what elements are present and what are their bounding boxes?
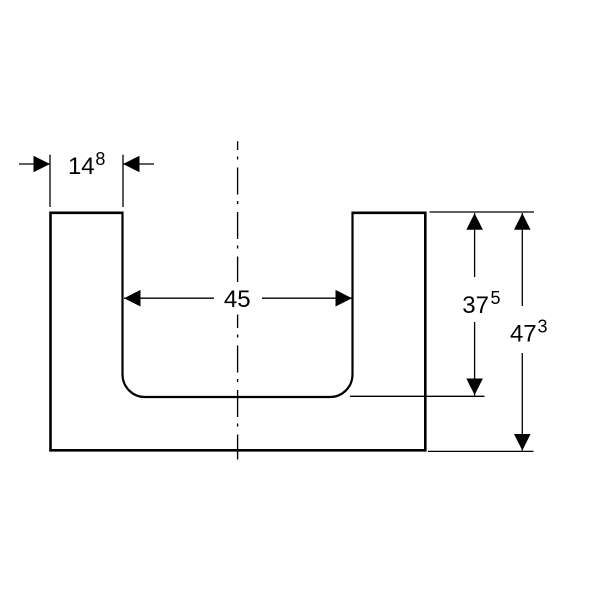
dim 47.3: bottom extension line xyxy=(428,450,534,452)
dim 14.8: left tail line xyxy=(19,163,50,165)
dim 47.3: dimension line xyxy=(521,213,523,451)
dim 14.8: right arrowhead xyxy=(123,156,140,173)
U-profile inner channel outline xyxy=(123,212,353,398)
svg-text:47: 47 xyxy=(510,321,537,348)
dim 14.8: right extension line xyxy=(122,155,124,207)
dim 14.8: right tail line xyxy=(123,163,154,165)
dim 47.3: bottom arrowhead xyxy=(514,434,531,451)
dim 45: white gap for label xyxy=(214,282,262,315)
dim 45: right arrowhead xyxy=(336,290,353,307)
svg-text:5: 5 xyxy=(491,288,501,308)
dim 14.8: left arrowhead xyxy=(34,156,51,173)
U-profile outer outline xyxy=(51,213,426,450)
dim 45: dimension line xyxy=(124,297,352,299)
dim 14.8: left extension line xyxy=(49,155,51,207)
dim 47.3: white gap for label xyxy=(500,306,552,353)
dim 37.5: bottom arrowhead xyxy=(466,379,483,396)
dim 47.3: top arrowhead xyxy=(514,213,531,230)
dim 37.5: top arrowhead xyxy=(466,213,483,230)
centerline (vertical dash-dot axis) xyxy=(237,141,239,459)
dim 37.5: dimension line xyxy=(474,213,476,396)
dim 37.5/47.3: top extension line xyxy=(430,211,535,213)
dim 37.5: bottom extension line xyxy=(350,395,485,397)
dim 37.5: white gap for label xyxy=(452,277,502,322)
dim 45: left arrowhead xyxy=(124,290,141,307)
svg-text:14: 14 xyxy=(68,153,95,180)
svg-text:8: 8 xyxy=(95,149,105,169)
svg-text:37: 37 xyxy=(462,292,489,319)
svg-text:3: 3 xyxy=(538,317,548,337)
svg-text:45: 45 xyxy=(224,286,251,313)
